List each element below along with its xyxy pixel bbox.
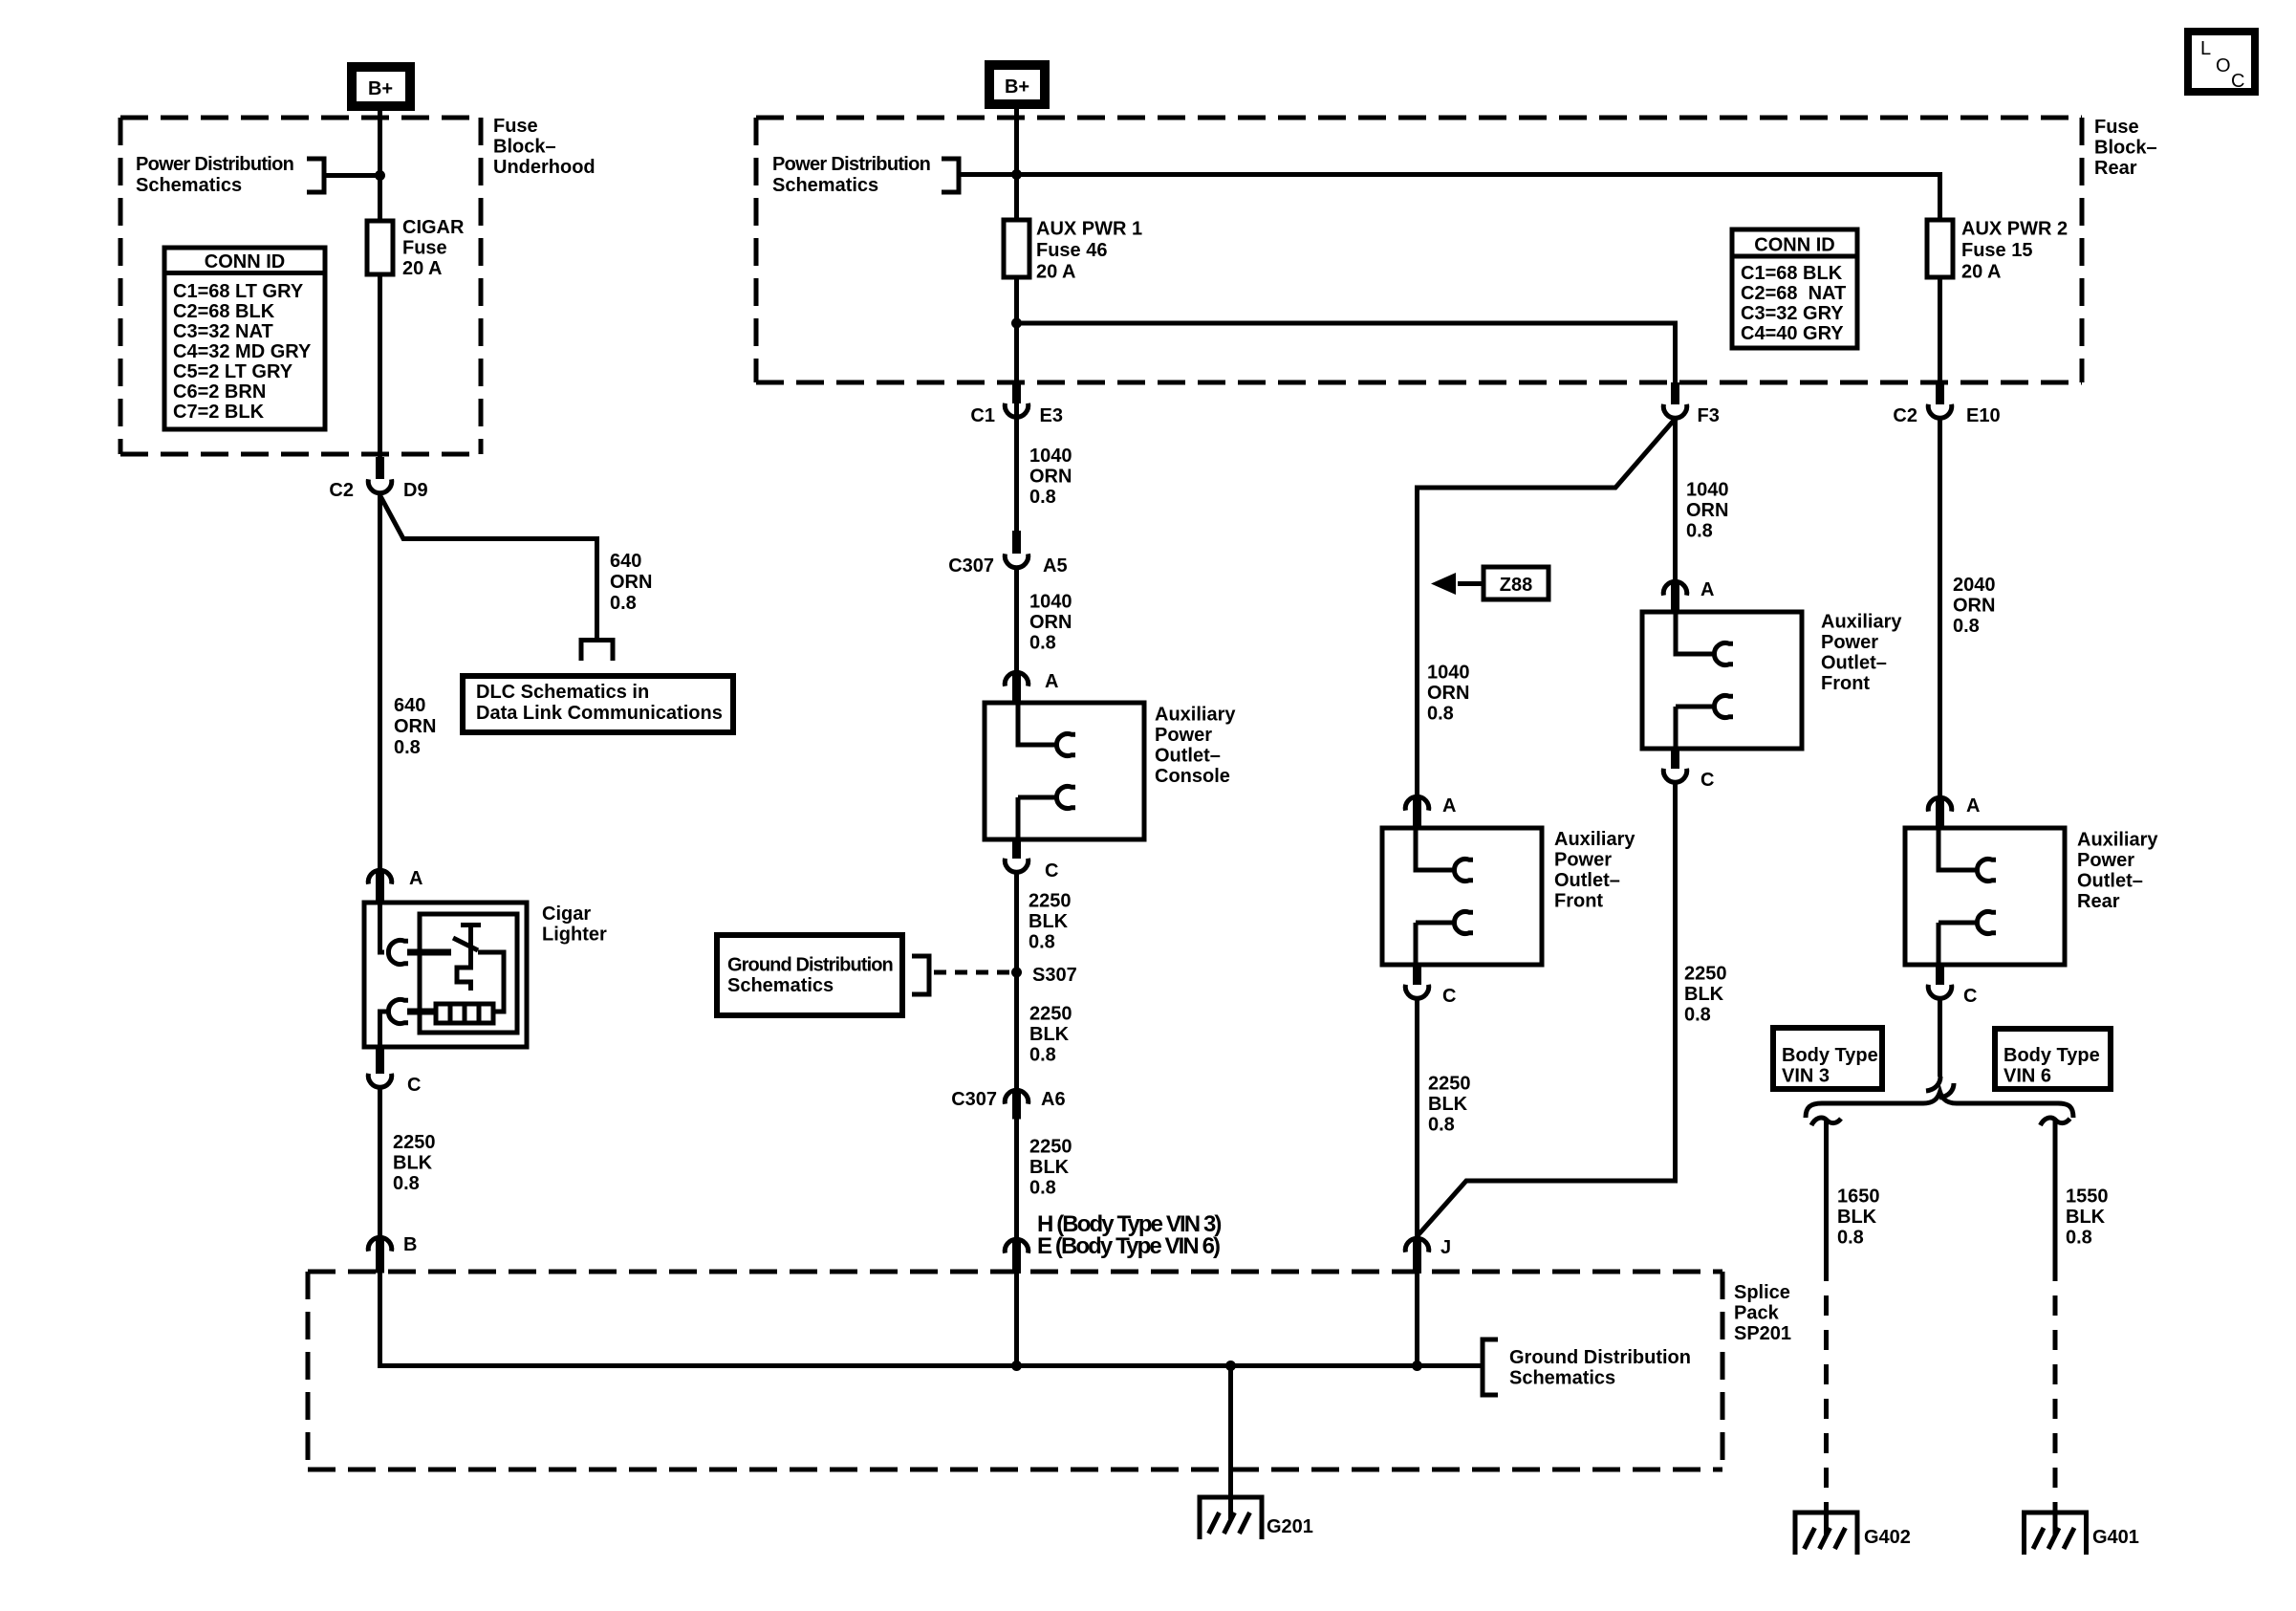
svg-text:C307: C307 bbox=[951, 1089, 997, 1110]
junction dot middle B+ bbox=[1011, 169, 1022, 180]
connector A (front outlet left) bbox=[1405, 796, 1429, 810]
svg-text:C2=68 BLK: C2=68 BLK bbox=[173, 301, 275, 322]
svg-text:2250: 2250 bbox=[393, 1132, 436, 1153]
svg-text:B+: B+ bbox=[1005, 76, 1029, 98]
svg-text:Data Link Communications: Data Link Communications bbox=[476, 703, 723, 724]
connector C307/A6 bbox=[1005, 1090, 1029, 1103]
svg-text:ORN: ORN bbox=[1029, 612, 1072, 633]
svg-text:BLK: BLK bbox=[2066, 1207, 2106, 1228]
connector A stub (console) bbox=[1012, 673, 1021, 705]
svg-text:Lighter: Lighter bbox=[542, 925, 607, 946]
junction dot splice (ground drop) bbox=[1225, 1361, 1236, 1371]
svg-text:BLK: BLK bbox=[1029, 911, 1069, 932]
wire H/E into splice pack bbox=[1014, 1274, 1019, 1366]
wire F3 branch to left front outlet bbox=[1418, 419, 1676, 795]
connector C2/D9 bbox=[368, 479, 392, 492]
wire middle B+ down bbox=[1014, 104, 1019, 457]
connector F3 stub bbox=[1671, 382, 1679, 404]
connector A (cigar lighter) bbox=[368, 870, 392, 883]
svg-text:0.8: 0.8 bbox=[1029, 932, 1055, 953]
splice S307 junction dot bbox=[1011, 968, 1022, 978]
wire cigar C to B bbox=[378, 1088, 382, 1235]
svg-text:A: A bbox=[1442, 795, 1456, 816]
connector J stub bbox=[1413, 1239, 1421, 1274]
wire B into splice pack bbox=[380, 1273, 1484, 1366]
svg-text:C: C bbox=[1700, 770, 1714, 791]
svg-text:Rear: Rear bbox=[2077, 891, 2120, 912]
svg-text:BLK: BLK bbox=[1428, 1094, 1468, 1115]
CONN ID table (right) bbox=[1732, 229, 1857, 348]
wire C2/D9 down to cigar lighter A bbox=[378, 494, 382, 868]
svg-text:0.8: 0.8 bbox=[393, 1173, 420, 1194]
svg-text:ORN: ORN bbox=[1686, 500, 1728, 521]
wire to G401 (dashed) bbox=[2053, 1261, 2058, 1513]
connector C stub (front left) bbox=[1413, 964, 1421, 985]
svg-text:E3: E3 bbox=[1040, 405, 1063, 426]
connector C stub (front right) bbox=[1671, 748, 1679, 769]
svg-text:J: J bbox=[1440, 1237, 1451, 1258]
junction dot left B+ feed bbox=[375, 170, 385, 181]
svg-text:CONN ID: CONN ID bbox=[205, 251, 285, 272]
wire AUX PWR 2 down to C2/E10 bbox=[1938, 277, 1942, 382]
svg-text:C7=2 BLK: C7=2 BLK bbox=[173, 402, 265, 423]
svg-text:Ground Distribution: Ground Distribution bbox=[1509, 1347, 1691, 1368]
wire A6 down to splice connector bbox=[1014, 1119, 1019, 1238]
inline connector hook (VIN6 wire) bbox=[2041, 1118, 2070, 1125]
svg-text:640: 640 bbox=[610, 551, 641, 572]
svg-text:Auxiliary: Auxiliary bbox=[2077, 830, 2158, 851]
B+ terminal (middle) bbox=[989, 65, 1045, 104]
svg-text:0.8: 0.8 bbox=[1837, 1228, 1864, 1249]
svg-text:2250: 2250 bbox=[1428, 1074, 1471, 1095]
svg-text:Cigar: Cigar bbox=[542, 903, 591, 925]
connector C2/E10 stub bbox=[1936, 382, 1944, 404]
connector A stub (front right) bbox=[1671, 582, 1679, 614]
connector C stub (console) bbox=[1012, 838, 1021, 859]
svg-text:Schematics: Schematics bbox=[772, 175, 878, 196]
connector C (rear outlet) bbox=[1928, 985, 1952, 998]
svg-text:ORN: ORN bbox=[1427, 683, 1469, 704]
connector A (front outlet right) bbox=[1663, 581, 1687, 595]
svg-text:Schematics: Schematics bbox=[1509, 1368, 1615, 1389]
connector J bbox=[1405, 1238, 1429, 1252]
connector B stub bbox=[376, 1238, 384, 1274]
wire B+ feed across to AUX PWR 2 bbox=[959, 175, 1940, 222]
svg-text:AUX PWR 1: AUX PWR 1 bbox=[1036, 219, 1142, 240]
svg-text:ORN: ORN bbox=[1953, 596, 1995, 617]
svg-text:Outlet–: Outlet– bbox=[1155, 746, 1221, 767]
auxiliary power outlet console box bbox=[985, 703, 1144, 839]
svg-text:C1: C1 bbox=[970, 405, 995, 426]
B+ terminal (left) bbox=[352, 67, 410, 106]
connector F3 bbox=[1663, 404, 1687, 418]
wire J into splice pack bbox=[1415, 1274, 1419, 1366]
connector B bbox=[368, 1237, 392, 1251]
off-page connector to DLC bbox=[581, 641, 613, 662]
connector H/E bbox=[1005, 1239, 1029, 1252]
connector C307/A6 stub bbox=[1012, 1091, 1021, 1120]
svg-text:O: O bbox=[2216, 55, 2231, 76]
svg-text:0.8: 0.8 bbox=[1953, 616, 1980, 637]
junction dot below AUX PWR 1 bbox=[1011, 318, 1022, 329]
svg-text:Splice: Splice bbox=[1734, 1282, 1790, 1303]
connector C (front outlet left) bbox=[1405, 985, 1429, 998]
svg-text:0.8: 0.8 bbox=[610, 593, 637, 614]
Z88 reference arrow bbox=[1431, 567, 1549, 599]
ground G401 bbox=[2022, 1513, 2089, 1555]
svg-text:20 A: 20 A bbox=[402, 258, 443, 279]
connector A stub (front left) bbox=[1413, 797, 1421, 829]
power distribution schematics note (middle) bbox=[772, 154, 959, 196]
svg-text:Body Type: Body Type bbox=[1782, 1045, 1878, 1066]
svg-text:C2: C2 bbox=[1893, 405, 1917, 426]
svg-text:Z88: Z88 bbox=[1500, 575, 1532, 596]
connector C1/E3 stub bbox=[1012, 382, 1021, 403]
svg-text:Power: Power bbox=[2077, 850, 2134, 871]
wire to G401 (solid) bbox=[2053, 1121, 2058, 1261]
wire splice to G201 bbox=[1228, 1366, 1233, 1498]
auxiliary power outlet front box (left) bbox=[1382, 828, 1542, 965]
svg-text:ORN: ORN bbox=[1029, 467, 1072, 488]
svg-text:BLK: BLK bbox=[393, 1153, 433, 1174]
svg-text:C4=32 MD GRY: C4=32 MD GRY bbox=[173, 341, 312, 362]
svg-text:CIGAR: CIGAR bbox=[402, 217, 465, 238]
svg-text:G201: G201 bbox=[1267, 1516, 1313, 1537]
svg-text:B: B bbox=[403, 1234, 417, 1255]
cigar lighter component box bbox=[364, 903, 527, 1047]
connector A stub bbox=[376, 871, 384, 904]
wire C307/A5 to console outlet A bbox=[1014, 569, 1019, 670]
svg-text:0.8: 0.8 bbox=[1684, 1005, 1711, 1026]
connector A (console outlet) bbox=[1005, 672, 1029, 686]
svg-text:C3=32 NAT: C3=32 NAT bbox=[173, 321, 273, 342]
svg-text:E (Body Type VIN 6): E (Body Type VIN 6) bbox=[1037, 1233, 1220, 1259]
svg-text:Console: Console bbox=[1155, 766, 1230, 787]
auxiliary power outlet rear box bbox=[1905, 828, 2065, 965]
ground G402 bbox=[1793, 1513, 1860, 1555]
connector C2/D9 stub bbox=[376, 457, 384, 479]
svg-text:G401: G401 bbox=[2092, 1527, 2139, 1548]
svg-text:0.8: 0.8 bbox=[1029, 1045, 1056, 1066]
svg-text:C3=32 GRY: C3=32 GRY bbox=[1741, 303, 1844, 324]
svg-text:Fuse: Fuse bbox=[2094, 117, 2139, 138]
svg-text:Block–: Block– bbox=[493, 137, 556, 158]
connector C307/A5 stub bbox=[1012, 531, 1021, 554]
svg-text:AUX PWR 2: AUX PWR 2 bbox=[1961, 219, 2068, 240]
junction dot splice (J wire) bbox=[1412, 1361, 1422, 1371]
wire rear C down to body-type split bbox=[1938, 999, 1942, 1077]
wire to G402 (dashed) bbox=[1824, 1261, 1829, 1513]
fuse AUX PWR 1 bbox=[1004, 219, 1142, 283]
svg-text:Fuse 15: Fuse 15 bbox=[1961, 240, 2032, 261]
svg-text:Outlet–: Outlet– bbox=[1821, 653, 1887, 674]
svg-text:G402: G402 bbox=[1864, 1527, 1911, 1548]
ground G201 bbox=[1198, 1497, 1265, 1539]
svg-text:Schematics: Schematics bbox=[727, 975, 834, 996]
svg-text:Auxiliary: Auxiliary bbox=[1155, 705, 1236, 726]
svg-text:Pack: Pack bbox=[1734, 1303, 1780, 1324]
svg-text:Block–: Block– bbox=[2094, 138, 2157, 159]
svg-text:CONN ID: CONN ID bbox=[1754, 235, 1834, 256]
wire F3 down to right front outlet bbox=[1673, 419, 1678, 579]
fuse CIGAR 20A bbox=[367, 217, 465, 279]
fuse block underhood dashed box bbox=[120, 118, 481, 454]
svg-text:20 A: 20 A bbox=[1961, 262, 2002, 283]
svg-text:0.8: 0.8 bbox=[1427, 704, 1454, 725]
svg-text:Power: Power bbox=[1821, 632, 1878, 653]
svg-text:Underhood: Underhood bbox=[493, 157, 596, 178]
svg-text:0.8: 0.8 bbox=[1029, 633, 1056, 654]
connector C (front outlet right) bbox=[1663, 769, 1687, 782]
svg-text:Body Type: Body Type bbox=[2004, 1045, 2100, 1066]
svg-text:A: A bbox=[1966, 795, 1980, 816]
svg-text:B+: B+ bbox=[368, 78, 393, 99]
splice pack SP201 dashed box bbox=[308, 1272, 1722, 1469]
svg-text:DLC Schematics in: DLC Schematics in bbox=[476, 682, 649, 703]
connector C2/E10 bbox=[1928, 404, 1952, 418]
svg-text:E10: E10 bbox=[1966, 405, 2001, 426]
svg-text:A: A bbox=[1700, 579, 1714, 600]
svg-text:C6=2 BRN: C6=2 BRN bbox=[173, 381, 266, 403]
inline connector hooks above brace bbox=[1926, 1077, 1940, 1091]
ground distribution schematics note box bbox=[717, 935, 1011, 1015]
svg-text:A5: A5 bbox=[1043, 555, 1068, 577]
connector A stub (rear) bbox=[1936, 798, 1944, 830]
CONN ID table (left) bbox=[164, 248, 325, 429]
body type VIN 3 box bbox=[1773, 1028, 1882, 1089]
svg-text:Fuse: Fuse bbox=[402, 238, 447, 259]
svg-text:D9: D9 bbox=[403, 480, 428, 501]
svg-text:Power: Power bbox=[1155, 725, 1212, 746]
svg-text:1040: 1040 bbox=[1686, 480, 1729, 501]
svg-text:C: C bbox=[1045, 860, 1058, 882]
svg-text:SP201: SP201 bbox=[1734, 1323, 1791, 1344]
svg-text:C5=2 LT GRY: C5=2 LT GRY bbox=[173, 361, 293, 382]
svg-text:F3: F3 bbox=[1698, 405, 1720, 426]
connector C (cigar lighter) stub bbox=[376, 1045, 384, 1074]
svg-text:2250: 2250 bbox=[1684, 964, 1727, 985]
svg-text:0.8: 0.8 bbox=[1029, 1178, 1056, 1199]
svg-text:BLK: BLK bbox=[1029, 1157, 1070, 1178]
svg-text:C: C bbox=[1442, 986, 1456, 1007]
connector C (console outlet) bbox=[1005, 859, 1029, 872]
svg-text:0.8: 0.8 bbox=[1428, 1115, 1455, 1136]
svg-text:1040: 1040 bbox=[1427, 663, 1470, 684]
svg-text:VIN 3: VIN 3 bbox=[1782, 1066, 1830, 1087]
auxiliary power outlet front box (right) bbox=[1642, 612, 1802, 749]
svg-text:Ground Distribution: Ground Distribution bbox=[727, 955, 893, 976]
svg-text:VIN 6: VIN 6 bbox=[2004, 1066, 2051, 1087]
svg-text:20 A: 20 A bbox=[1036, 262, 1076, 283]
svg-text:0.8: 0.8 bbox=[1029, 487, 1056, 508]
connector A (rear outlet) bbox=[1928, 797, 1952, 811]
svg-text:ORN: ORN bbox=[610, 572, 652, 593]
svg-text:C: C bbox=[407, 1075, 421, 1096]
wire to G402 (solid) bbox=[1824, 1121, 1829, 1261]
connector H/E stub bbox=[1012, 1240, 1021, 1274]
fuse block rear dashed box bbox=[756, 118, 2082, 382]
svg-text:C2: C2 bbox=[329, 480, 354, 501]
svg-text:C1=68 BLK: C1=68 BLK bbox=[1741, 263, 1843, 284]
svg-text:Fuse 46: Fuse 46 bbox=[1036, 240, 1107, 261]
svg-text:C: C bbox=[1963, 986, 1977, 1007]
svg-text:2250: 2250 bbox=[1029, 1137, 1072, 1158]
body type VIN 6 box bbox=[1995, 1029, 2111, 1089]
wire front-right C down to J bbox=[1418, 783, 1676, 1236]
svg-text:A: A bbox=[1045, 671, 1058, 692]
svg-text:C4=40 GRY: C4=40 GRY bbox=[1741, 323, 1844, 344]
svg-text:Front: Front bbox=[1554, 891, 1603, 912]
wire front-left C down to J bbox=[1415, 999, 1419, 1236]
LOC reference box bbox=[2188, 32, 2255, 92]
power distribution schematics note (left) bbox=[136, 154, 378, 196]
svg-text:L: L bbox=[2200, 38, 2211, 59]
wire C2/E10 down to rear outlet bbox=[1938, 419, 1942, 795]
svg-text:A6: A6 bbox=[1041, 1089, 1066, 1110]
svg-text:C1=68 LT GRY: C1=68 LT GRY bbox=[173, 281, 304, 302]
junction dot splice (console wire) bbox=[1011, 1361, 1022, 1371]
svg-text:ORN: ORN bbox=[394, 716, 436, 737]
connector C1/E3 bbox=[1005, 403, 1029, 417]
svg-text:BLK: BLK bbox=[1029, 1024, 1070, 1045]
svg-text:Auxiliary: Auxiliary bbox=[1554, 829, 1635, 850]
svg-text:640: 640 bbox=[394, 695, 425, 716]
svg-text:Auxiliary: Auxiliary bbox=[1821, 612, 1902, 633]
svg-text:BLK: BLK bbox=[1684, 984, 1724, 1005]
fuse AUX PWR 2 bbox=[1927, 219, 2068, 283]
svg-text:C: C bbox=[2231, 71, 2244, 92]
brace selector bbox=[1806, 1092, 2073, 1118]
svg-text:Fuse: Fuse bbox=[493, 116, 538, 137]
svg-text:1550: 1550 bbox=[2066, 1186, 2109, 1208]
svg-text:Outlet–: Outlet– bbox=[1554, 870, 1620, 891]
svg-text:Power Distribution: Power Distribution bbox=[772, 154, 930, 175]
svg-text:Power Distribution: Power Distribution bbox=[136, 154, 293, 175]
DLC schematics reference box bbox=[463, 676, 733, 732]
connector C stub (rear) bbox=[1936, 964, 1944, 985]
wire branch to DLC bbox=[380, 495, 597, 639]
svg-text:0.8: 0.8 bbox=[2066, 1228, 2092, 1249]
connector C (cigar lighter) bbox=[368, 1074, 392, 1087]
svg-text:Outlet–: Outlet– bbox=[2077, 871, 2143, 892]
svg-text:BLK: BLK bbox=[1837, 1207, 1877, 1228]
svg-text:1040: 1040 bbox=[1029, 592, 1072, 613]
inline connector hook (VIN3 wire) bbox=[1811, 1118, 1841, 1125]
svg-text:1650: 1650 bbox=[1837, 1186, 1880, 1208]
svg-text:0.8: 0.8 bbox=[394, 737, 421, 758]
wire console C down bbox=[1014, 873, 1019, 1089]
ground distribution schematics note (splice) bbox=[1483, 1339, 1691, 1395]
wire B+ down through fuse block (left) bbox=[378, 106, 382, 457]
svg-text:Power: Power bbox=[1554, 850, 1612, 871]
svg-text:0.8: 0.8 bbox=[1686, 521, 1713, 542]
svg-text:Front: Front bbox=[1821, 673, 1870, 694]
svg-text:Rear: Rear bbox=[2094, 158, 2137, 179]
svg-text:2250: 2250 bbox=[1029, 891, 1072, 912]
wire C1/E3 to C307/A5 bbox=[1014, 418, 1019, 532]
svg-text:C2=68 NAT: C2=68 NAT bbox=[1741, 283, 1846, 304]
svg-text:2040: 2040 bbox=[1953, 575, 1996, 596]
svg-text:1040: 1040 bbox=[1029, 446, 1072, 467]
svg-text:C307: C307 bbox=[948, 555, 994, 577]
wire across to F3 drop bbox=[1017, 323, 1676, 382]
svg-text:Schematics: Schematics bbox=[136, 175, 242, 196]
svg-text:2250: 2250 bbox=[1029, 1004, 1072, 1025]
svg-text:A: A bbox=[409, 868, 422, 889]
svg-text:S307: S307 bbox=[1032, 965, 1077, 986]
connector C307/A5 bbox=[1005, 554, 1029, 567]
